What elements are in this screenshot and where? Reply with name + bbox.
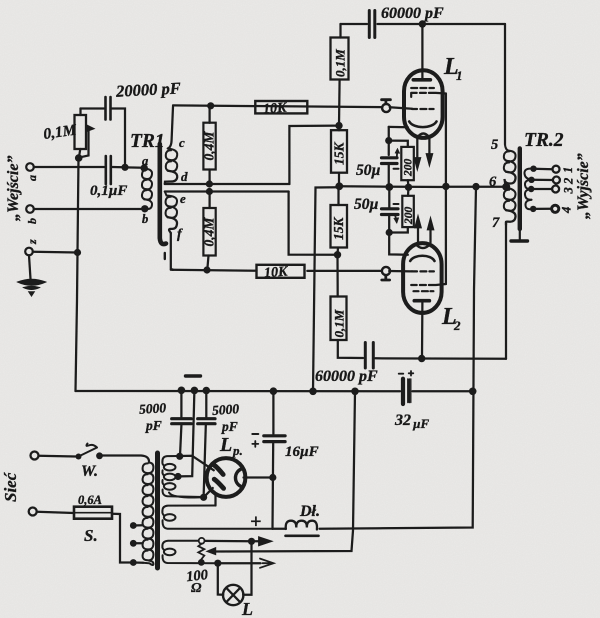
capacitor 16uF plates — [264, 436, 285, 442]
svg-text:2: 2 — [562, 178, 576, 185]
junction 0,4M top — [207, 102, 214, 109]
cap1 lower lead to HV top — [180, 425, 181, 456]
rectifier heater winding — [162, 506, 215, 512]
svg-text:b: b — [25, 218, 39, 224]
svg-text:b: b — [142, 212, 148, 226]
pot top lead — [79, 109, 81, 116]
hum wiper wire — [216, 391, 356, 551]
TR1 secondary c lead — [168, 107, 173, 149]
TR1 primary winding — [142, 169, 152, 180]
50uF upper polarity arrow — [396, 151, 399, 158]
resistor 0,1M upper — [331, 38, 349, 80]
svg-text:0,1M: 0,1M — [333, 49, 348, 77]
wire choke left to plus node — [273, 528, 286, 530]
switch contact — [96, 452, 103, 459]
50uF lower leads — [388, 187, 390, 232]
junction 5000pF cap 1 — [178, 387, 186, 395]
svg-text:W.: W. — [81, 463, 98, 480]
filament wire 2 with arrow — [216, 562, 261, 564]
cathode/B+ horizontal wire — [339, 185, 503, 188]
TR1 d wire — [165, 183, 290, 185]
wire input a to coupling cap — [34, 166, 104, 168]
junction 5000pF cap 2 — [203, 387, 211, 395]
5000pF cap1 riser — [180, 390, 182, 417]
svg-text:d: d — [181, 169, 188, 184]
junction HV winding top — [176, 453, 183, 460]
svg-text:Ω: Ω — [191, 581, 202, 596]
svg-text:10K: 10K — [264, 264, 290, 281]
wire to line A — [289, 126, 339, 184]
switch W arm — [79, 444, 98, 457]
svg-text:5: 5 — [491, 137, 498, 153]
L2 grid row 2 with right exit — [411, 284, 446, 285]
wire to 200 upper top — [389, 141, 408, 147]
junction HV center tap riser — [191, 387, 199, 395]
svg-text:0,1M: 0,1M — [332, 309, 347, 337]
L1 cathode arc — [409, 122, 436, 128]
svg-text:c: c — [179, 135, 185, 150]
TR2 primary upper winding — [504, 145, 516, 162]
junction hum wiper riser — [351, 388, 359, 396]
svg-text:60000 pF: 60000 pF — [315, 368, 378, 385]
rectifier tube Lp envelope — [207, 458, 246, 497]
capacitor 50uF upper plates — [382, 158, 398, 164]
bus right portion to B+ riser — [413, 390, 473, 392]
hum pot circle — [199, 538, 205, 544]
L1 anode lead — [421, 24, 423, 79]
L2 anode bar — [414, 299, 429, 303]
L2 anode lead — [421, 301, 424, 358]
svg-text:µF: µF — [412, 416, 429, 431]
TR2 secondary winding — [524, 168, 533, 179]
junction B+ riser top — [472, 183, 479, 190]
resistor 15K upper — [331, 130, 347, 173]
32uF polarity — [399, 371, 414, 376]
HV winding bottom curve — [169, 493, 204, 498]
svg-text:60000 pF: 60000 pF — [381, 5, 444, 22]
TR1 secondary lower winding e-f — [165, 192, 177, 207]
capacitor 0,1uF plates — [106, 156, 111, 184]
Lp filament bottom pin — [214, 494, 216, 506]
L1 cathode exit wire — [389, 126, 408, 129]
junction L1 anode top — [419, 20, 426, 27]
5000pF cap2 riser — [205, 391, 207, 418]
svg-text:0,1µF: 0,1µF — [90, 183, 127, 199]
svg-text:5000: 5000 — [139, 400, 167, 417]
tube L2 envelope — [403, 243, 442, 313]
junction cathode top — [385, 137, 392, 144]
svg-text:16µF: 16µF — [285, 444, 319, 460]
junction 15K lower bottom — [334, 251, 341, 258]
wire input b to TR1 b — [34, 208, 145, 210]
svg-text:20000 pF: 20000 pF — [115, 78, 182, 100]
wire cap to L2 anode node — [375, 357, 506, 360]
capacitor 60000pF top plates — [369, 11, 375, 38]
TR1 secondary upper winding c-d — [166, 149, 177, 161]
wire down to TR2 terminal 5 — [504, 24, 506, 145]
L2 filament leads with arrows up — [417, 224, 419, 243]
wire fuse to primary bottom — [112, 514, 133, 563]
svg-text:200: 200 — [403, 207, 415, 226]
junction line C — [309, 388, 317, 396]
resistor 10K bottom box — [257, 265, 305, 278]
L1 grid row 1 — [411, 87, 434, 89]
wire cap to TR1 a — [112, 166, 144, 169]
resistor 0,4M lower — [203, 208, 215, 256]
L2 control grid row — [412, 270, 434, 272]
pilot lamp L — [223, 585, 243, 605]
lamp lead left — [218, 563, 223, 595]
wire node up to TR2 terminal 7 — [505, 222, 507, 359]
L1 filament dome — [417, 134, 429, 138]
svg-text:„Wyjście”: „Wyjście” — [575, 153, 592, 219]
TR2 terminal 6 wire and dot — [502, 183, 510, 191]
svg-text:+: + — [250, 511, 261, 533]
grid cap circle top — [382, 104, 390, 112]
svg-text:50µ: 50µ — [356, 162, 381, 179]
bus minus sign — [186, 374, 201, 377]
Lp anode 1 — [214, 465, 223, 474]
capacitor 5000pF no1 plates — [172, 419, 192, 424]
16uF polarity — [252, 433, 258, 435]
junction 0,4M lower top — [206, 188, 213, 195]
resistor 15K lower — [331, 205, 348, 248]
50uF upper bottom lead — [388, 165, 390, 185]
junction rectifier filament wire — [269, 474, 276, 481]
cathode wire from L1 down — [388, 127, 390, 155]
TR2 core ground bar — [511, 239, 528, 242]
wire to L2 cathode — [389, 233, 408, 255]
svg-text:0,4M: 0,4M — [202, 217, 217, 247]
potentiometer 0,1M body — [75, 115, 87, 149]
capacitor 60000pF bottom plates — [365, 343, 373, 369]
line B from e wire — [289, 192, 338, 255]
junction L2 anode — [418, 355, 425, 362]
choke Dl coil — [286, 521, 317, 530]
pot bottom lead — [79, 149, 80, 158]
junction 200 upper bottom — [405, 184, 412, 191]
ground stem — [29, 255, 31, 279]
TR2 tap 4 — [530, 206, 536, 212]
hum pot zigzag — [198, 544, 204, 560]
resistor 0,4M upper — [203, 123, 215, 170]
TR2 tap 3 — [528, 186, 534, 192]
junction 50u line on cathode bus — [385, 183, 393, 191]
L2 filament dome — [415, 244, 430, 248]
ground symbol — [18, 279, 46, 285]
svg-text:5000: 5000 — [212, 401, 240, 418]
wire pot top to 20000pF — [81, 107, 105, 109]
Lp filament arc — [235, 469, 240, 486]
svg-text:L: L — [219, 434, 232, 456]
0,1M lower top lead — [336, 255, 338, 297]
svg-text:Dł.: Dł. — [299, 503, 320, 520]
B+ riser (terminal6 to choke) — [320, 187, 477, 529]
wire to rectifier anode 2 — [204, 488, 213, 497]
HV center tap riser — [179, 390, 194, 476]
16uF to plus node riser — [271, 444, 274, 529]
svg-text:200: 200 — [403, 159, 415, 178]
capacitor 5000pF no2 plates — [198, 419, 215, 424]
amp heater winding — [162, 541, 198, 546]
L1 control grid row — [412, 108, 434, 110]
svg-text:10K: 10K — [263, 101, 289, 118]
junction pot bottom — [75, 154, 83, 162]
filament wire 1 with arrow — [205, 540, 251, 543]
junction 16uF riser — [270, 387, 278, 395]
0,1M upper bottom lead — [338, 80, 341, 126]
resistor 0,1M lower — [331, 297, 347, 341]
line C corner to ground bus — [313, 187, 339, 391]
TR2 tap 2 — [528, 177, 534, 183]
pot wiper arm — [80, 129, 89, 158]
16uF riser — [272, 391, 274, 434]
L2 grid row 3 — [414, 290, 434, 292]
grid wire bottom (f to L2 grid) — [171, 270, 412, 272]
capacitor 50uF lower plates — [382, 209, 399, 215]
junction 0,4M upper bottom — [206, 180, 213, 187]
svg-text:0,6A: 0,6A — [78, 493, 102, 507]
primary winding loops — [143, 463, 154, 474]
svg-text:„Wejście”: „Wejście” — [5, 156, 22, 221]
tube L1 envelope — [404, 70, 443, 138]
TR1 core — [160, 144, 166, 244]
svg-text:6: 6 — [489, 174, 497, 190]
svg-text:pF: pF — [221, 419, 238, 434]
junction 0,4M lower bottom — [203, 266, 210, 273]
lamp lead right — [243, 541, 251, 595]
TR1 core bottom tick — [164, 253, 166, 259]
svg-text:e: e — [180, 191, 186, 206]
top feedback bus — [341, 23, 506, 25]
power transformer core — [155, 453, 160, 568]
svg-text:L: L — [241, 599, 253, 618]
svg-text:32: 32 — [394, 412, 411, 429]
svg-text:1: 1 — [561, 167, 575, 173]
junction cathode bottom — [386, 229, 393, 236]
switch W pivot — [76, 454, 82, 460]
junction screen riser on B+ wire — [442, 183, 449, 190]
screen riser between tubes — [445, 94, 447, 285]
left riser wire (z/ground to bottom bus) — [76, 158, 79, 392]
svg-text:TR.2: TR.2 — [524, 130, 564, 151]
wire input z to ground riser — [33, 251, 78, 254]
resistor 200 lower — [402, 196, 414, 227]
svg-text:50µ: 50µ — [354, 196, 379, 213]
svg-text:S.: S. — [84, 526, 98, 545]
primary top wire from switch — [101, 456, 149, 463]
svg-text:0,4M: 0,4M — [202, 131, 217, 161]
TR2 primary lower winding — [504, 188, 516, 200]
wire top bus to 0,1M upper — [339, 24, 341, 38]
svg-text:2: 2 — [453, 318, 461, 333]
fuse S body — [74, 507, 112, 519]
choke underline — [286, 534, 319, 537]
TR2 core — [518, 148, 522, 229]
svg-text:Sieć: Sieć — [1, 471, 20, 502]
L2 cathode arc — [410, 256, 434, 261]
TR1 e wire — [165, 190, 289, 192]
TR1 primary terminal b — [141, 205, 148, 212]
node junction 20000pF branch — [121, 164, 128, 171]
L1 anode bar — [413, 78, 430, 82]
mains terminal 1 — [31, 452, 39, 460]
TR2 tap 1 — [530, 166, 536, 172]
junction cathode line — [335, 182, 343, 190]
svg-text:7: 7 — [492, 215, 500, 231]
input terminal a — [26, 163, 34, 171]
svg-text:a: a — [142, 154, 148, 168]
resistor 10K top box — [255, 101, 307, 113]
HV secondary winding — [162, 456, 180, 462]
50uF lower polarity — [394, 203, 399, 205]
resistor 200 upper — [401, 147, 414, 180]
L1 grid row 2 with exits — [411, 93, 446, 97]
0,1M lower bottom lead and anode wire — [338, 340, 363, 358]
input terminal z — [25, 248, 33, 256]
mains terminal 2 — [29, 508, 37, 516]
junction HV bottom — [200, 494, 207, 501]
junction HV center tap — [174, 473, 181, 480]
wire to switch pivot — [39, 455, 76, 458]
ground bus — [76, 390, 401, 393]
wire 20000pF to node — [112, 109, 125, 167]
svg-text:3: 3 — [562, 187, 576, 194]
TR1 primary terminal a — [141, 164, 148, 171]
junction B+ riser on bus — [469, 388, 477, 396]
primary taps — [130, 522, 137, 529]
cap2 lower lead to HV bottom / anode 2 — [204, 425, 206, 497]
svg-text:pF: pF — [145, 418, 162, 433]
wire HV top to rectifier anode 1 — [180, 456, 214, 471]
wire to fuse — [37, 512, 74, 513]
grid cap circle bottom — [382, 267, 390, 275]
TR1 f lead down — [171, 233, 173, 270]
svg-text:4: 4 — [560, 207, 574, 214]
input terminal b — [26, 205, 34, 213]
svg-text:15K: 15K — [331, 217, 346, 241]
junction z riser — [74, 249, 81, 256]
svg-text:15K: 15K — [332, 142, 347, 166]
capacitor 20000pF plates — [106, 97, 111, 120]
svg-text:a: a — [25, 175, 39, 181]
wire rectifier filament to plus node — [244, 476, 273, 478]
svg-text:p.: p. — [232, 443, 243, 458]
svg-text:1: 1 — [456, 68, 463, 83]
svg-text:TR1: TR1 — [130, 131, 165, 152]
Lp anode 2 — [214, 479, 223, 488]
capacitor 32uF plates — [401, 379, 405, 404]
L1 filament leads with arrows — [416, 139, 418, 162]
grid wire top (c to L1 grid) — [173, 105, 412, 108]
junction 15K upper top — [335, 122, 342, 129]
svg-text:z: z — [25, 239, 39, 245]
